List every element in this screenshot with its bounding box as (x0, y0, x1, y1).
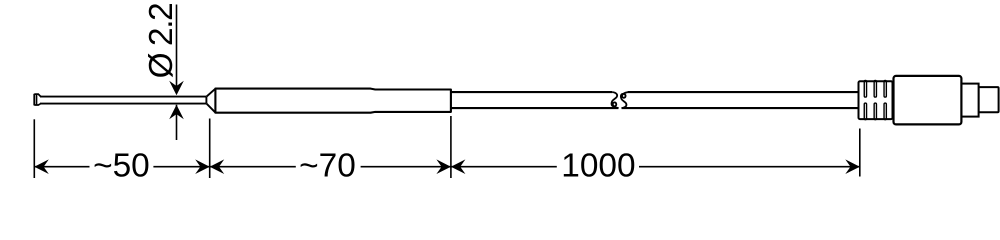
svg-text:~50: ~50 (93, 148, 150, 185)
svg-text:Ø 2.2: Ø 2.2 (143, 4, 180, 79)
svg-text:1000: 1000 (561, 148, 635, 185)
svg-text:~70: ~70 (299, 148, 356, 185)
